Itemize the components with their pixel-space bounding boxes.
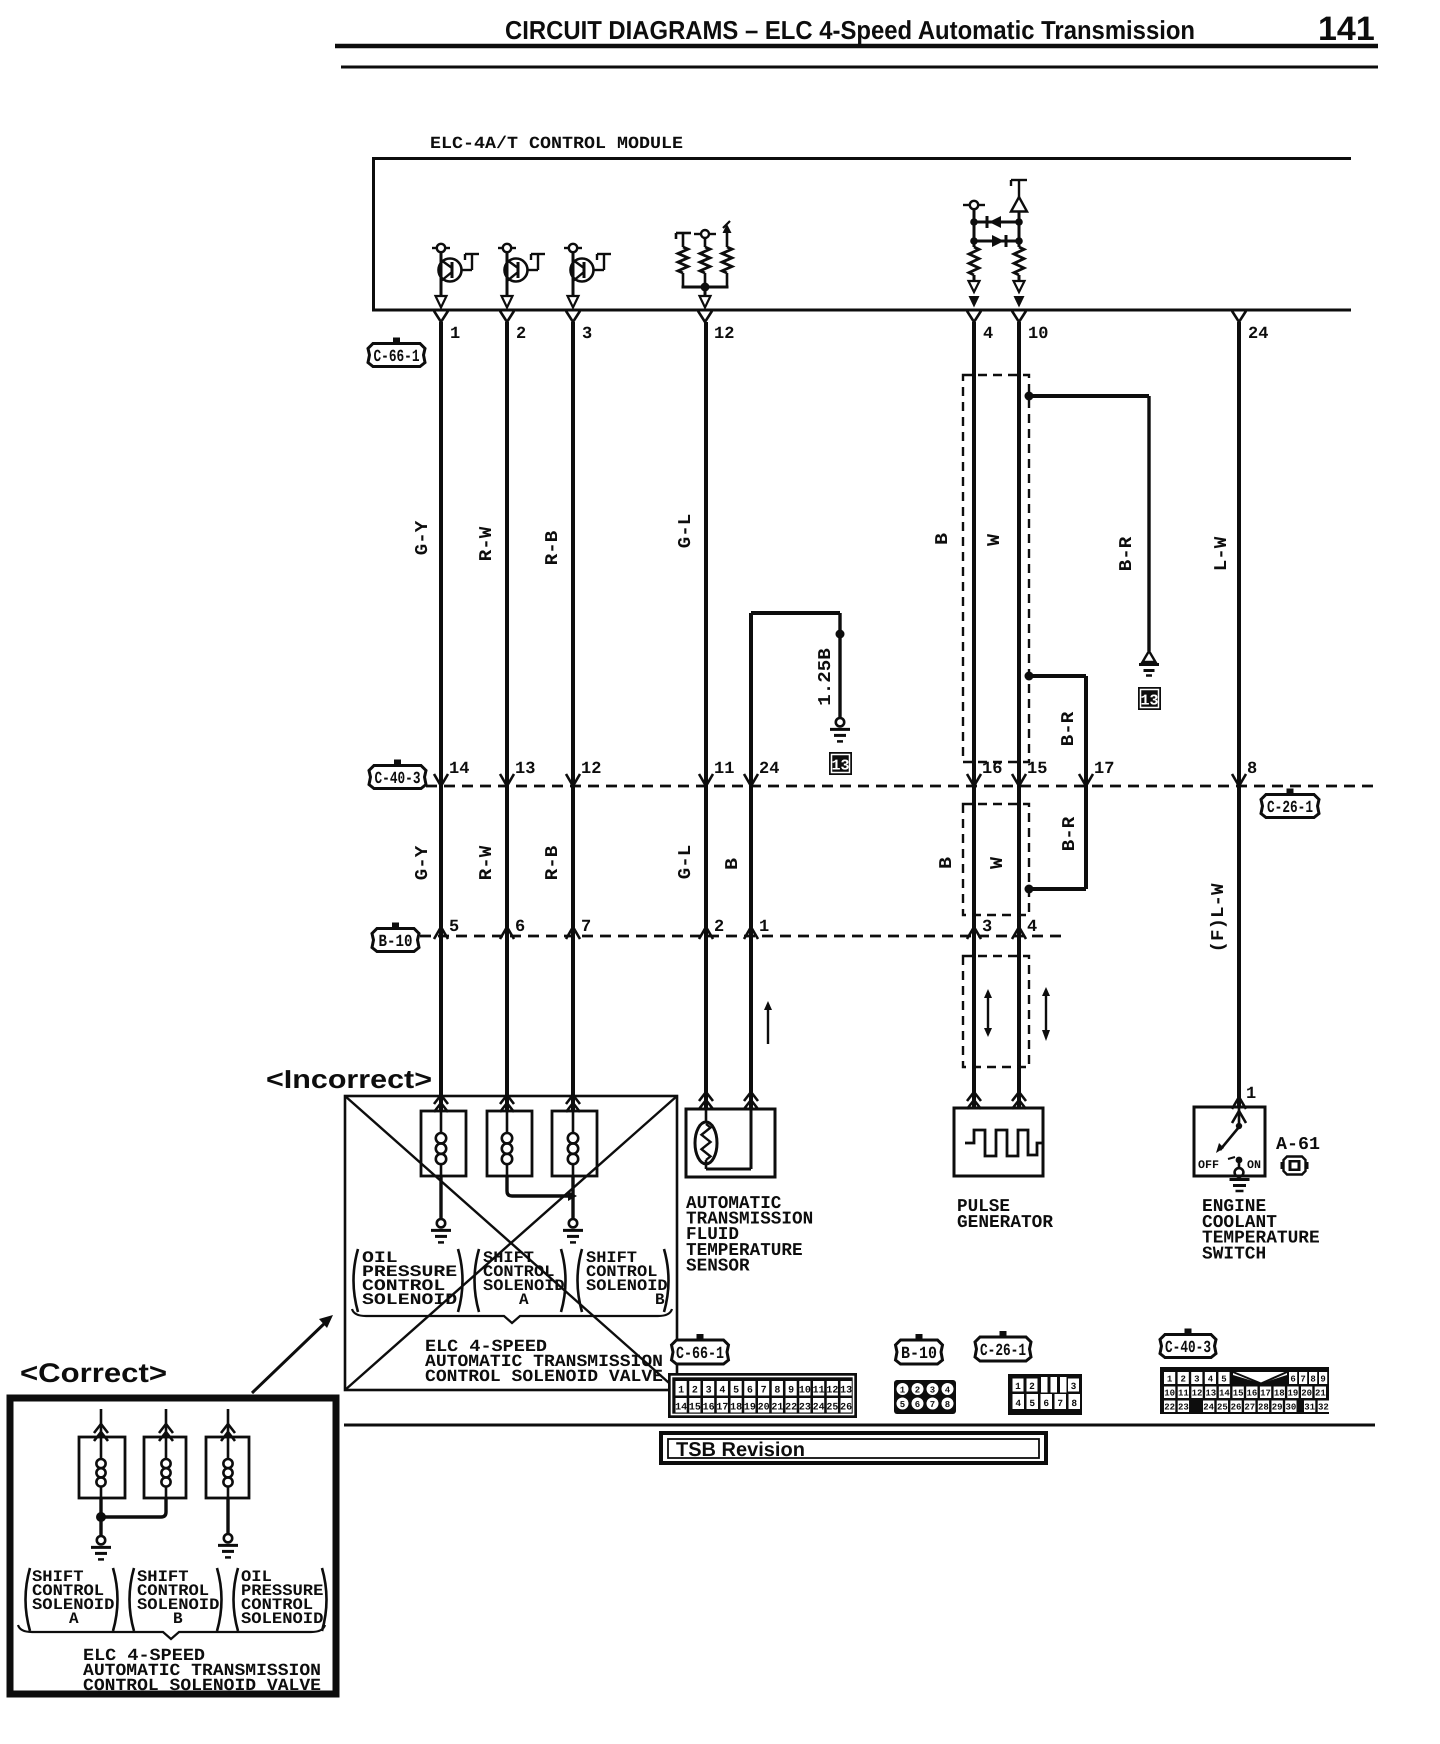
B-10 pin 7 xyxy=(566,927,580,939)
svg-text:16: 16 xyxy=(1246,1389,1257,1399)
connector label C-66-1 bottom xyxy=(672,1334,729,1364)
svg-text:L-W: L-W xyxy=(1212,537,1232,572)
svg-text:1: 1 xyxy=(1015,1381,1021,1392)
svg-text:13: 13 xyxy=(1140,693,1158,710)
svg-text:B: B xyxy=(937,857,957,869)
connector label C-40-3 bottom xyxy=(1160,1329,1216,1359)
svg-text:13: 13 xyxy=(1205,1389,1216,1399)
svg-text:12: 12 xyxy=(1192,1389,1203,1399)
svg-text:2: 2 xyxy=(692,1386,698,1397)
oil pressure control solenoid (correct) xyxy=(227,1409,230,1437)
ground ref 13 box xyxy=(829,752,852,775)
svg-text:ON: ON xyxy=(1247,1159,1261,1172)
label oil pressure control solenoid (correct) xyxy=(234,1568,239,1631)
svg-text:OFF: OFF xyxy=(1198,1159,1219,1172)
svg-text:10: 10 xyxy=(1164,1389,1175,1399)
svg-text:22: 22 xyxy=(785,1403,797,1414)
svg-text:31: 31 xyxy=(1304,1403,1315,1413)
svg-text:25: 25 xyxy=(826,1403,838,1414)
ground for B-R wire xyxy=(1143,651,1156,662)
svg-text:13: 13 xyxy=(831,758,849,775)
module pin 2 fork xyxy=(500,311,514,322)
svg-text:<Incorrect>: <Incorrect> xyxy=(266,1064,432,1094)
svg-text:29: 29 xyxy=(1272,1403,1283,1413)
svg-text:17: 17 xyxy=(1260,1389,1271,1399)
svg-text:30: 30 xyxy=(1285,1403,1296,1413)
svg-text:G-Y: G-Y xyxy=(413,521,433,556)
B-10 pin 2 xyxy=(699,927,713,939)
svg-text:2: 2 xyxy=(1029,1381,1035,1392)
svg-text:13: 13 xyxy=(840,1386,852,1397)
incorrect box cross line 2 xyxy=(345,1096,677,1390)
svg-text:1: 1 xyxy=(1246,1085,1256,1104)
switch SW1 xyxy=(1216,1107,1242,1169)
svg-text:SOLENOID: SOLENOID xyxy=(362,1291,457,1309)
label shift control solenoid B (incorrect) xyxy=(578,1249,583,1312)
svg-text:9: 9 xyxy=(1320,1375,1325,1385)
connector label C-66-1 xyxy=(368,338,425,368)
wire R-B pin3 to solenoid xyxy=(571,322,575,1111)
svg-text:TSB Revision: TSB Revision xyxy=(676,1439,805,1461)
wire B-R pin 17 lower to shield xyxy=(1084,786,1088,889)
B-10 pin 6 xyxy=(500,927,514,939)
svg-text:12: 12 xyxy=(714,325,734,344)
svg-text:B-10: B-10 xyxy=(379,933,413,952)
svg-text:7: 7 xyxy=(930,1400,935,1410)
module pin 24 fork xyxy=(1232,311,1246,322)
correct box frame xyxy=(10,1398,336,1694)
svg-text:3: 3 xyxy=(1071,1381,1077,1392)
connector label C-26-1 right xyxy=(1261,789,1319,819)
module pin 1 fork xyxy=(434,311,448,322)
svg-text:GENERATOR: GENERATOR xyxy=(957,1213,1053,1233)
svg-text:24: 24 xyxy=(1248,325,1268,344)
C-40-3 pin 15 xyxy=(1012,774,1026,786)
ground ref 13 box right xyxy=(1138,687,1161,710)
svg-text:5: 5 xyxy=(1029,1398,1035,1409)
svg-text:1: 1 xyxy=(759,918,769,937)
svg-text:A-61: A-61 xyxy=(1276,1135,1320,1155)
svg-text:11: 11 xyxy=(813,1386,825,1397)
svg-text:3: 3 xyxy=(982,918,992,937)
svg-text:28: 28 xyxy=(1258,1403,1269,1413)
svg-text:ELC-4A/T CONTROL MODULE: ELC-4A/T CONTROL MODULE xyxy=(430,135,683,154)
label shift control solenoid A (correct) xyxy=(26,1568,31,1631)
connector C-26-1 pinout xyxy=(1008,1374,1082,1415)
shift control solenoid B L3 xyxy=(566,1095,580,1104)
label shift control solenoid A (incorrect) xyxy=(475,1249,480,1312)
B-10 pin 5 xyxy=(434,927,448,939)
svg-text:3: 3 xyxy=(930,1386,935,1396)
sensor entry terminals xyxy=(699,1092,713,1101)
shift control solenoid A L2 xyxy=(500,1095,514,1104)
C-40-3 pin 17 xyxy=(1079,774,1093,786)
signal direction arrow at sensor wire xyxy=(767,1008,769,1044)
wire B sensor ground branch xyxy=(749,613,753,1109)
wire B pin4 to pulse generator xyxy=(972,322,976,1108)
thermistor RT1 xyxy=(695,1109,717,1169)
svg-text:7: 7 xyxy=(1057,1398,1063,1409)
svg-text:4: 4 xyxy=(719,1386,725,1397)
label shift control solenoid B (correct) xyxy=(130,1568,135,1631)
connector C-40-3 pinout xyxy=(1160,1367,1329,1414)
switch entry terminal xyxy=(1232,1097,1246,1109)
svg-text:CIRCUIT DIAGRAMS – ELC 4-Speed: CIRCUIT DIAGRAMS – ELC 4-Speed Automatic… xyxy=(505,15,1195,45)
svg-text:SOLENOID: SOLENOID xyxy=(241,1610,323,1628)
svg-text:22: 22 xyxy=(1164,1403,1175,1413)
svg-text:4: 4 xyxy=(1015,1398,1021,1409)
svg-text:24: 24 xyxy=(813,1403,825,1414)
module pin 12 fork xyxy=(698,311,712,322)
svg-text:5: 5 xyxy=(449,918,459,937)
C-40-3 pin 8 xyxy=(1232,774,1246,786)
ground for 1.25B wire xyxy=(836,718,844,726)
switch body ground xyxy=(1235,1168,1244,1177)
svg-text:CONTROL SOLENOID VALVE: CONTROL SOLENOID VALVE xyxy=(83,1677,321,1696)
svg-text:25: 25 xyxy=(1217,1403,1228,1413)
module pin 3 fork xyxy=(566,311,580,322)
svg-text:15: 15 xyxy=(1027,760,1047,779)
svg-text:5: 5 xyxy=(900,1400,905,1410)
svg-text:26: 26 xyxy=(840,1403,852,1414)
svg-text:R-W: R-W xyxy=(477,527,497,562)
svg-text:9: 9 xyxy=(788,1386,794,1397)
svg-text:1.25B: 1.25B xyxy=(816,648,836,706)
svg-text:G-Y: G-Y xyxy=(413,846,433,881)
svg-text:C-26-1: C-26-1 xyxy=(1267,799,1313,818)
label oil pressure control solenoid (incorrect) xyxy=(354,1249,359,1312)
svg-text:24: 24 xyxy=(1203,1403,1214,1413)
svg-text:W: W xyxy=(988,857,1008,869)
pulse generator box xyxy=(954,1108,1043,1176)
svg-text:4: 4 xyxy=(983,325,993,344)
svg-text:18: 18 xyxy=(730,1403,742,1414)
svg-text:32: 32 xyxy=(1318,1403,1329,1413)
svg-text:A: A xyxy=(519,1291,529,1309)
pulse generator entry terminals xyxy=(967,1092,981,1101)
svg-text:R-B: R-B xyxy=(543,531,563,566)
svg-text:B: B xyxy=(723,858,743,870)
connector C-66-1 pinout xyxy=(668,1373,857,1418)
sensor internal wiring xyxy=(706,1168,751,1171)
svg-text:2: 2 xyxy=(1180,1375,1185,1385)
header rule 2 xyxy=(341,66,1378,69)
pulse generator waveform symbol xyxy=(965,1130,1043,1156)
svg-text:C-40-3: C-40-3 xyxy=(375,770,421,789)
svg-text:SWITCH: SWITCH xyxy=(1202,1244,1266,1264)
svg-text:8: 8 xyxy=(1310,1375,1315,1385)
svg-text:20: 20 xyxy=(758,1403,770,1414)
svg-text:20: 20 xyxy=(1301,1389,1312,1399)
svg-text:4: 4 xyxy=(1027,918,1037,937)
solenoid A ground wire with junction xyxy=(99,1498,102,1537)
shift control solenoid A (correct) xyxy=(100,1409,103,1437)
svg-text:1: 1 xyxy=(678,1386,684,1397)
svg-text:6: 6 xyxy=(515,918,525,937)
svg-text:4: 4 xyxy=(945,1386,951,1396)
signal direction arrow right xyxy=(1045,994,1047,1032)
svg-text:26: 26 xyxy=(1231,1403,1242,1413)
svg-text:3: 3 xyxy=(706,1386,712,1397)
svg-text:G-L: G-L xyxy=(676,514,696,549)
svg-text:1: 1 xyxy=(1167,1375,1173,1385)
svg-text:8: 8 xyxy=(774,1386,780,1397)
connector label C-26-1 bottom xyxy=(975,1331,1031,1361)
wire B-R shield to pin 17 upper xyxy=(1025,672,1034,681)
svg-text:4: 4 xyxy=(1208,1375,1214,1385)
C-40-3 pin 24 xyxy=(744,774,758,786)
svg-text:B-10: B-10 xyxy=(901,1345,937,1364)
shield box at pulse generator xyxy=(963,956,1029,1067)
wire L-W pin24 to coolant switch xyxy=(1237,322,1241,1107)
svg-text:23: 23 xyxy=(1178,1403,1189,1413)
svg-text:10: 10 xyxy=(1028,325,1048,344)
transistor at pin wire x=441 xyxy=(432,244,479,308)
wire W pin10 to pulse generator xyxy=(1017,322,1021,1108)
svg-text:<Correct>: <Correct> xyxy=(20,1358,167,1388)
svg-text:17: 17 xyxy=(1094,760,1114,779)
svg-text:17: 17 xyxy=(716,1403,728,1414)
svg-text:12: 12 xyxy=(581,760,601,779)
ground for solenoid 3 xyxy=(569,1219,577,1227)
svg-text:8: 8 xyxy=(945,1400,950,1410)
svg-text:12: 12 xyxy=(826,1386,838,1397)
C-40-3 pin 13 xyxy=(500,774,514,786)
incorrect box cross line 1 xyxy=(345,1096,677,1390)
svg-text:R-W: R-W xyxy=(477,846,497,881)
svg-text:7: 7 xyxy=(581,918,591,937)
arrow pointing to incorrect box xyxy=(252,1321,327,1393)
svg-text:141: 141 xyxy=(1318,10,1375,48)
solenoid 1 ground wire xyxy=(439,1176,442,1220)
svg-text:(F)L-W: (F)L-W xyxy=(1209,883,1229,952)
C-40-3 pin 16 xyxy=(967,774,981,786)
wire G-L pin12 to ATF sensor xyxy=(704,322,708,1109)
svg-text:14: 14 xyxy=(675,1403,687,1414)
svg-text:21: 21 xyxy=(1315,1389,1326,1399)
svg-text:10: 10 xyxy=(799,1386,811,1397)
svg-text:15: 15 xyxy=(689,1403,701,1414)
svg-text:1: 1 xyxy=(450,325,460,344)
module pin 10 fork xyxy=(1012,311,1026,322)
svg-text:8: 8 xyxy=(1247,760,1257,779)
C-40-3 pin 14 xyxy=(434,774,448,786)
B-10 pin 1 xyxy=(744,927,758,939)
svg-text:27: 27 xyxy=(1244,1403,1255,1413)
TSB revision box xyxy=(661,1433,1046,1463)
svg-text:11: 11 xyxy=(1178,1389,1189,1399)
svg-text:B-R: B-R xyxy=(1059,712,1079,747)
svg-text:6: 6 xyxy=(1290,1375,1295,1385)
wire 1.25B to ground xyxy=(838,613,841,718)
ground for solenoid 1 xyxy=(437,1219,445,1227)
svg-text:1: 1 xyxy=(900,1386,906,1396)
svg-text:W: W xyxy=(985,534,1005,546)
shield box upper around B and W wires xyxy=(963,375,1029,762)
svg-text:6: 6 xyxy=(747,1386,753,1397)
C-40-3 pin 12 xyxy=(566,774,580,786)
svg-text:B: B xyxy=(173,1610,183,1628)
engine coolant temperature switch box xyxy=(1194,1107,1265,1176)
svg-text:15: 15 xyxy=(1233,1389,1244,1399)
svg-text:18: 18 xyxy=(1274,1389,1285,1399)
svg-text:5: 5 xyxy=(1221,1375,1226,1385)
svg-text:C-26-1: C-26-1 xyxy=(980,1342,1026,1361)
signal direction arrow left xyxy=(987,996,989,1030)
ELC-4A/T control module box U1 xyxy=(374,159,1352,311)
connector label B-10 xyxy=(372,923,419,953)
svg-text:6: 6 xyxy=(1043,1398,1049,1409)
svg-text:3: 3 xyxy=(1194,1375,1199,1385)
C-40-3 pin 11 xyxy=(699,774,713,786)
svg-text:B: B xyxy=(655,1291,665,1309)
svg-text:SENSOR: SENSOR xyxy=(686,1256,750,1276)
B-10 pin 3 xyxy=(967,927,981,939)
brace under solenoid labels (incorrect) xyxy=(352,1309,672,1323)
svg-text:B-R: B-R xyxy=(1117,537,1137,572)
svg-text:16: 16 xyxy=(703,1403,715,1414)
module pin 4 fork xyxy=(967,311,981,322)
svg-text:B-R: B-R xyxy=(1060,817,1080,852)
svg-text:14: 14 xyxy=(1219,1389,1230,1399)
svg-text:3: 3 xyxy=(582,325,592,344)
svg-text:5: 5 xyxy=(733,1386,739,1397)
shield box lower xyxy=(963,804,1029,915)
diode clamp network at pins 4 and 10 xyxy=(963,180,1027,308)
svg-text:2: 2 xyxy=(714,918,724,937)
connector B-10 pinout xyxy=(894,1380,956,1414)
B-10 pin 4 xyxy=(1012,927,1026,939)
svg-text:14: 14 xyxy=(449,760,469,779)
connector label C-40-3 xyxy=(369,760,426,790)
oil pressure control solenoid L1 xyxy=(434,1095,448,1104)
brace under solenoid labels (correct) xyxy=(18,1625,325,1639)
ground for oil pressure solenoid xyxy=(224,1534,232,1542)
connector C-40-3 dashed line xyxy=(426,785,1378,788)
wire G-Y pin1 to solenoid xyxy=(439,322,443,1111)
solenoid 3 ground wire xyxy=(571,1176,574,1220)
oil pressure solenoid ground wire xyxy=(226,1498,229,1535)
svg-text:11: 11 xyxy=(714,760,734,779)
svg-text:19: 19 xyxy=(1288,1389,1299,1399)
svg-text:B: B xyxy=(933,533,953,545)
resistor network R1 R2 R3 at pin 12 xyxy=(676,221,732,308)
svg-text:8: 8 xyxy=(1071,1398,1077,1409)
svg-text:24: 24 xyxy=(759,760,779,779)
incorrect box frame xyxy=(345,1096,677,1390)
svg-text:A: A xyxy=(69,1610,79,1628)
transistor at pin wire x=573 xyxy=(564,244,611,308)
svg-text:C-66-1: C-66-1 xyxy=(374,348,420,367)
header rule 1 xyxy=(335,44,1378,49)
svg-text:2: 2 xyxy=(516,325,526,344)
transistor at pin wire x=507 xyxy=(498,244,545,308)
wire B-R shield to ground 13 xyxy=(1025,392,1034,401)
svg-text:7: 7 xyxy=(1300,1375,1305,1385)
svg-text:16: 16 xyxy=(982,760,1002,779)
svg-text:7: 7 xyxy=(761,1386,767,1397)
svg-text:R-B: R-B xyxy=(543,846,563,881)
svg-text:C-40-3: C-40-3 xyxy=(1165,1339,1211,1358)
bottom separator rule xyxy=(344,1424,1375,1427)
solenoid 2 jumper wire to solenoid 3 xyxy=(507,1176,568,1196)
connector A-61 icon xyxy=(1281,1157,1309,1175)
automatic transmission fluid temperature sensor box xyxy=(686,1109,775,1177)
svg-text:CONTROL SOLENOID VALVE: CONTROL SOLENOID VALVE xyxy=(425,1368,663,1387)
svg-text:21: 21 xyxy=(771,1403,783,1414)
wire R-W pin2 to solenoid xyxy=(505,322,509,1111)
connector label B-10 bottom xyxy=(896,1334,943,1364)
shift control solenoid B (correct) xyxy=(165,1409,168,1437)
svg-text:23: 23 xyxy=(799,1403,811,1414)
svg-text:G-L: G-L xyxy=(676,845,696,880)
svg-text:13: 13 xyxy=(515,760,535,779)
svg-text:19: 19 xyxy=(744,1403,756,1414)
connector B-10 dashed line xyxy=(420,935,1062,938)
svg-text:2: 2 xyxy=(915,1386,920,1396)
ground for solenoids A and B xyxy=(97,1536,105,1544)
svg-text:6: 6 xyxy=(915,1400,920,1410)
solenoid B jumper wire xyxy=(101,1498,166,1517)
svg-text:C-66-1: C-66-1 xyxy=(676,1345,724,1364)
